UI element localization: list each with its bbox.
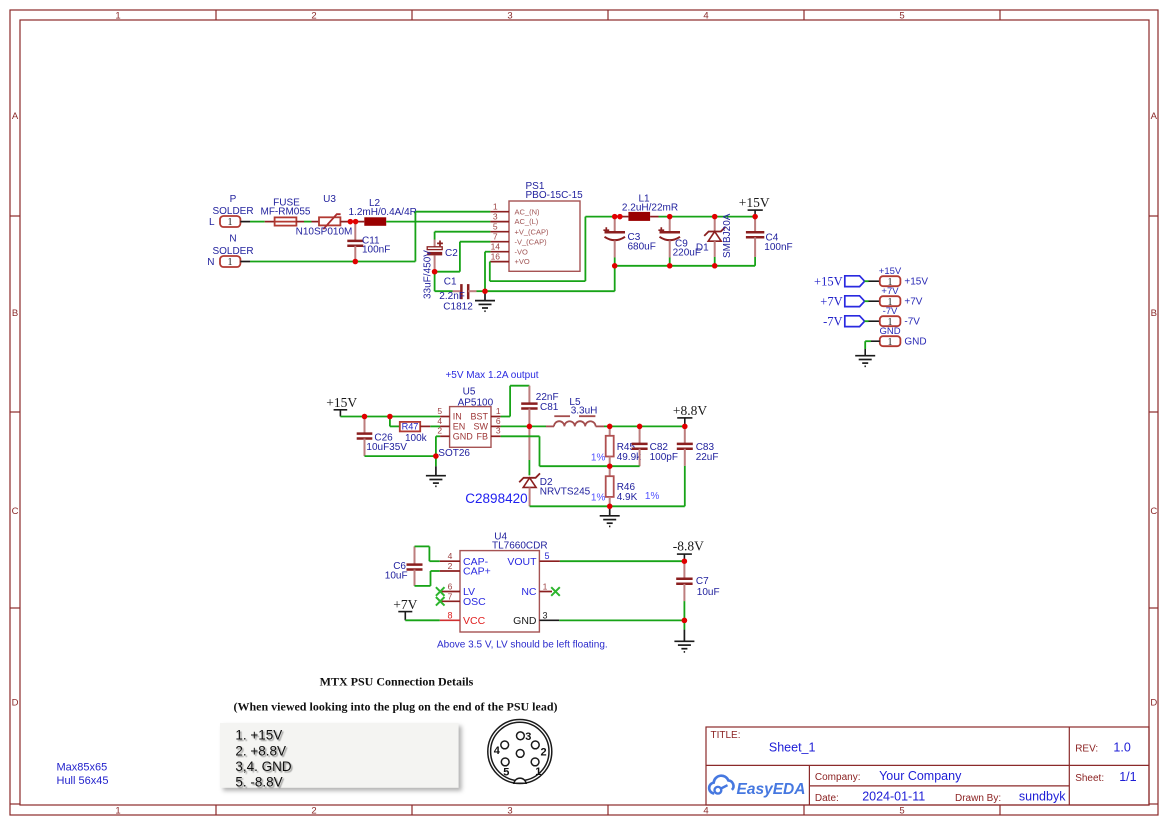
wire: L1 to output rail bbox=[650, 216, 755, 218]
svg-text:C2: C2 bbox=[445, 248, 458, 259]
svg-text:C: C bbox=[12, 506, 19, 517]
svg-text:+15V: +15V bbox=[739, 195, 770, 210]
svg-text:-7V: -7V bbox=[883, 306, 898, 317]
wire: U3 to L2 with junction to C11 bbox=[340, 221, 364, 223]
pin pad GND bbox=[879, 326, 926, 348]
diode D2 NRVTS245 bbox=[519, 426, 590, 506]
junction dots output rail bbox=[607, 424, 687, 429]
wire L: L2 to PS1 pin3 bbox=[386, 221, 490, 223]
svg-text:AC_(L): AC_(L) bbox=[515, 217, 539, 226]
svg-text:TL7660CDR: TL7660CDR bbox=[492, 541, 548, 552]
svg-text:4: 4 bbox=[437, 416, 442, 426]
capacitor C1 2.2nF C1812 bbox=[439, 277, 473, 313]
no-connect X on LV pin6 bbox=[436, 587, 445, 596]
junction dot C2 bottom bbox=[432, 269, 438, 275]
net label +8.8V bbox=[673, 403, 707, 426]
svg-text:U5: U5 bbox=[463, 386, 476, 397]
net label -8.8V bbox=[673, 538, 704, 561]
svg-text:+15V: +15V bbox=[326, 395, 357, 410]
wire: FB feedback line bbox=[501, 436, 640, 466]
wire: L5 to output node bbox=[596, 425, 685, 427]
ground symbol at net flags bbox=[855, 356, 875, 367]
svg-text:2: 2 bbox=[540, 747, 546, 759]
svg-text:+5V Max 1.2A output: +5V Max 1.2A output bbox=[445, 370, 538, 381]
svg-text:5. -8.8V: 5. -8.8V bbox=[235, 775, 282, 790]
no-connect X on NC pin1 bbox=[551, 587, 560, 596]
svg-text:4: 4 bbox=[703, 806, 708, 817]
wire: GND pin3 to C7 bottom bbox=[559, 619, 684, 621]
svg-text:TITLE:: TITLE: bbox=[711, 730, 741, 741]
svg-text:2.2uH/22mR: 2.2uH/22mR bbox=[622, 203, 678, 214]
wire: +15V rail to U5 pin5 bbox=[340, 416, 440, 418]
svg-text:49.9k: 49.9k bbox=[617, 452, 642, 463]
svg-text:+15V: +15V bbox=[879, 266, 902, 277]
svg-text:+8.8V: +8.8V bbox=[673, 403, 707, 418]
svg-text:2. +8.8V: 2. +8.8V bbox=[235, 743, 286, 758]
svg-text:10uF35V: 10uF35V bbox=[366, 442, 407, 453]
wire: PS1 pin16 (+VO) to +15V rail bbox=[490, 217, 615, 282]
svg-text:3: 3 bbox=[542, 610, 547, 620]
junction dots on +15V rail bbox=[362, 414, 393, 419]
junction dots at C3 / L1 left bbox=[612, 214, 622, 219]
svg-text:(When viewed looking into the: (When viewed looking into the plug on th… bbox=[233, 700, 557, 714]
wire: C26 bottom to ground node bbox=[365, 455, 436, 457]
svg-text:VCC: VCC bbox=[463, 615, 486, 627]
svg-text:NRVTS245: NRVTS245 bbox=[540, 486, 591, 497]
wire: SW node bbox=[501, 425, 554, 427]
junction dots C3 bbox=[612, 263, 617, 268]
svg-text:1: 1 bbox=[888, 337, 893, 348]
svg-text:Above 3.5 V, LV should be left: Above 3.5 V, LV should be left floating. bbox=[437, 640, 608, 651]
svg-text:+7V: +7V bbox=[904, 297, 922, 308]
svg-text:3: 3 bbox=[507, 806, 512, 817]
svg-text:A: A bbox=[1151, 111, 1158, 122]
svg-text:SMBJ20A: SMBJ20A bbox=[722, 213, 733, 258]
svg-text:1: 1 bbox=[543, 582, 548, 592]
capacitor C4 100nF bbox=[746, 217, 793, 266]
svg-text:MTX PSU Connection Details: MTX PSU Connection Details bbox=[320, 675, 474, 689]
svg-text:1: 1 bbox=[227, 217, 232, 228]
svg-text:N: N bbox=[207, 257, 214, 268]
wire: PS1 pin7 to C2 bottom bbox=[435, 242, 491, 272]
svg-text:3: 3 bbox=[496, 426, 501, 436]
wire: bottom return rail bbox=[615, 265, 755, 267]
pin pad +7V bbox=[880, 286, 923, 308]
wire: FUSE to U3 bbox=[296, 221, 319, 223]
wire: PS1 pin14 (-VO) down to ground junction bbox=[485, 252, 490, 292]
wire N: pad N to PS1 pin1 bbox=[240, 212, 490, 262]
svg-text:2024-01-11: 2024-01-11 bbox=[862, 789, 925, 803]
svg-text:1%: 1% bbox=[645, 491, 660, 502]
svg-text:1%: 1% bbox=[591, 452, 606, 463]
svg-text:+7V: +7V bbox=[393, 597, 417, 612]
svg-text:2.2nF: 2.2nF bbox=[439, 291, 465, 302]
capacitor C83 22uF bbox=[677, 426, 719, 506]
inductor L5 3.3uH bbox=[554, 397, 597, 426]
svg-text:2: 2 bbox=[311, 11, 316, 22]
svg-text:GND: GND bbox=[904, 337, 926, 348]
svg-text:Sheet:: Sheet: bbox=[1075, 773, 1104, 784]
no-connect X on OSC pin7 bbox=[436, 597, 445, 606]
resistor R47 100k bbox=[390, 417, 440, 445]
junction dot SW/C81 bbox=[527, 424, 532, 429]
svg-text:+V_(CAP): +V_(CAP) bbox=[515, 227, 549, 236]
svg-text:BST: BST bbox=[470, 412, 488, 422]
svg-text:4: 4 bbox=[494, 745, 501, 757]
junction dot FB node bbox=[607, 464, 612, 469]
svg-text:4: 4 bbox=[448, 551, 453, 561]
svg-text:2: 2 bbox=[448, 561, 453, 571]
svg-text:GND: GND bbox=[453, 432, 474, 442]
svg-text:100k: 100k bbox=[405, 433, 428, 444]
svg-text:D: D bbox=[1150, 698, 1157, 709]
junction dots overlay (all nets) bbox=[348, 214, 758, 623]
resistor R46 4.9K bbox=[591, 466, 660, 506]
wire: C6 top to CAP- pin4 bbox=[415, 546, 440, 561]
connector P (solder pad) bbox=[209, 194, 254, 228]
svg-text:N: N bbox=[229, 234, 236, 245]
svg-text:C7: C7 bbox=[696, 576, 709, 587]
ground symbol U5 bbox=[426, 456, 446, 486]
svg-text:CAP+: CAP+ bbox=[463, 566, 491, 578]
svg-text:R47: R47 bbox=[402, 422, 419, 432]
svg-text:SW: SW bbox=[474, 422, 489, 432]
fuse FUSE MF-RM055 bbox=[260, 197, 310, 225]
junction dot GND net bbox=[682, 618, 688, 624]
wire: PS1 pin5 to C2 top bbox=[435, 231, 491, 233]
svg-text:-VO: -VO bbox=[515, 247, 529, 256]
svg-text:10uF: 10uF bbox=[385, 570, 408, 581]
svg-text:100nF: 100nF bbox=[362, 245, 390, 256]
wire: ground line to output cap return bbox=[485, 266, 615, 291]
net port flag +15V bbox=[814, 274, 880, 288]
net label +15V (U5 input) bbox=[326, 395, 357, 417]
wire: dot to L1 bbox=[620, 216, 629, 218]
capacitor C6 10uF bbox=[385, 546, 423, 586]
svg-text:Max85x65: Max85x65 bbox=[57, 761, 108, 773]
svg-text:33uF/450V: 33uF/450V bbox=[423, 250, 434, 299]
svg-text:1: 1 bbox=[115, 11, 120, 22]
svg-text:D1: D1 bbox=[696, 242, 709, 253]
svg-text:680uF: 680uF bbox=[628, 241, 656, 252]
svg-text:+15V: +15V bbox=[814, 274, 843, 288]
svg-text:EN: EN bbox=[453, 422, 466, 432]
capacitor C82 100pF bbox=[632, 426, 678, 466]
svg-text:Sheet_1: Sheet_1 bbox=[769, 740, 816, 754]
svg-text:16: 16 bbox=[491, 251, 501, 261]
svg-text:3: 3 bbox=[525, 731, 531, 743]
wire: bottom rail U5 section bbox=[530, 505, 685, 507]
svg-text:SOLDER: SOLDER bbox=[212, 246, 253, 257]
title block bbox=[706, 727, 1149, 805]
regulator U5 AP5100 bbox=[437, 386, 501, 447]
inductor L1 2.2uH/22mR bbox=[622, 193, 678, 221]
junction dot +15V at rail bbox=[753, 214, 758, 219]
inductor L2 1.2mH/0.4A/4R bbox=[349, 198, 417, 226]
svg-text:100pF: 100pF bbox=[650, 452, 678, 463]
capacitor C3 680uF bbox=[603, 217, 655, 266]
svg-text:OSC: OSC bbox=[463, 596, 486, 608]
svg-text:Your Company: Your Company bbox=[879, 769, 962, 783]
svg-text:1: 1 bbox=[535, 766, 541, 778]
svg-text:4: 4 bbox=[703, 11, 708, 22]
svg-text:3,4. GND: 3,4. GND bbox=[235, 759, 292, 774]
svg-text:-8.8V: -8.8V bbox=[673, 538, 704, 553]
svg-text:N10SP010M: N10SP010M bbox=[296, 227, 353, 238]
DIN connector pin numbers bbox=[494, 731, 547, 778]
svg-text:2: 2 bbox=[311, 806, 316, 817]
svg-text:14: 14 bbox=[491, 242, 501, 252]
capacitor C81 22nF bbox=[521, 386, 559, 427]
svg-text:-7V: -7V bbox=[823, 314, 842, 328]
svg-text:22uF: 22uF bbox=[696, 452, 719, 463]
junction dot +8.8V at rail bbox=[682, 424, 687, 429]
charge pump U4 TL7660CDR bbox=[440, 531, 560, 632]
svg-text:+VO: +VO bbox=[515, 257, 530, 266]
svg-text:4.9K: 4.9K bbox=[617, 492, 638, 503]
svg-text:1.0: 1.0 bbox=[1113, 741, 1130, 755]
svg-text:5: 5 bbox=[899, 806, 904, 817]
title block texts bbox=[711, 730, 1137, 804]
svg-text:sundbyk: sundbyk bbox=[1019, 789, 1066, 803]
svg-text:Date:: Date: bbox=[815, 793, 839, 804]
power module PS1 PBO-15C-15 bbox=[490, 181, 583, 271]
note panel: PSU pinout list bbox=[220, 723, 459, 790]
svg-text:1/1: 1/1 bbox=[1119, 770, 1136, 784]
svg-text:U3: U3 bbox=[323, 194, 336, 205]
svg-text:6: 6 bbox=[448, 582, 453, 592]
svg-text:PBO-15C-15: PBO-15C-15 bbox=[526, 190, 584, 201]
capacitor C2 33uF/450V bbox=[423, 232, 459, 299]
note: board size Max85x65 Hull 56x45 bbox=[57, 761, 109, 787]
svg-text:D: D bbox=[12, 698, 19, 709]
DIN connector drawing (PSU plug) bbox=[488, 720, 552, 784]
svg-text:IN: IN bbox=[453, 412, 462, 422]
connector N (solder pad) bbox=[207, 234, 253, 269]
svg-text:10uF: 10uF bbox=[697, 587, 720, 598]
wire: C1 to ground junction bbox=[468, 290, 485, 292]
wire: BST to C81 bbox=[501, 386, 530, 417]
svg-text:GND: GND bbox=[513, 615, 537, 627]
svg-text:C2898420: C2898420 bbox=[465, 491, 527, 506]
net port flag -7V bbox=[823, 314, 880, 328]
svg-text:Drawn By:: Drawn By: bbox=[955, 793, 1001, 804]
svg-text:NC: NC bbox=[521, 586, 537, 598]
svg-text:-V_(CAP): -V_(CAP) bbox=[515, 237, 548, 246]
svg-text:-7V: -7V bbox=[904, 317, 920, 328]
svg-text:VOUT: VOUT bbox=[507, 556, 537, 568]
svg-text:1: 1 bbox=[115, 806, 120, 817]
svg-text:MF-RM055: MF-RM055 bbox=[260, 207, 310, 218]
svg-text:C: C bbox=[1150, 506, 1157, 517]
wire L: pad P to FUSE bbox=[240, 221, 274, 223]
capacitor C26 10uF35V bbox=[357, 417, 408, 457]
svg-text:C1: C1 bbox=[444, 277, 457, 288]
svg-text:3.3uH: 3.3uH bbox=[571, 405, 598, 416]
svg-text:L: L bbox=[209, 217, 215, 228]
svg-text:100nF: 100nF bbox=[764, 242, 792, 253]
resistor R45 49.9k bbox=[591, 426, 642, 466]
svg-text:1: 1 bbox=[227, 257, 232, 268]
junction dot U5 ground bbox=[433, 453, 439, 459]
ground symbol U5 output bbox=[600, 506, 620, 526]
junction dot VOUT bbox=[682, 559, 687, 564]
svg-text:Company:: Company: bbox=[815, 772, 861, 783]
svg-text:5: 5 bbox=[493, 222, 498, 232]
capacitor C7 10uF bbox=[676, 561, 719, 620]
svg-text:SOLDER: SOLDER bbox=[212, 206, 253, 217]
svg-text:3: 3 bbox=[493, 211, 498, 221]
junction dots at L2 input bbox=[348, 219, 359, 224]
svg-text:5: 5 bbox=[503, 767, 509, 779]
junction dot C11 to N wire bbox=[353, 259, 358, 264]
svg-text:7: 7 bbox=[493, 232, 498, 242]
svg-text:8: 8 bbox=[447, 610, 452, 620]
wire: C6 bottom to CAP+ pin2 bbox=[415, 571, 440, 586]
pin pad -7V bbox=[880, 306, 920, 328]
capacitor C9 220uF bbox=[658, 214, 701, 268]
wire: +7V to VCC pin8 bbox=[405, 619, 439, 621]
svg-text:1.2mH/0.4A/4R: 1.2mH/0.4A/4R bbox=[349, 207, 417, 218]
svg-text:FB: FB bbox=[476, 432, 488, 442]
svg-text:C1812: C1812 bbox=[443, 301, 473, 312]
svg-text:+7V: +7V bbox=[881, 286, 899, 297]
svg-text:REV:: REV: bbox=[1075, 744, 1098, 755]
net label +15V (top) bbox=[739, 195, 770, 217]
svg-text:GND: GND bbox=[879, 326, 900, 337]
svg-text:3: 3 bbox=[507, 11, 512, 22]
svg-text:7: 7 bbox=[448, 591, 453, 601]
svg-text:P: P bbox=[230, 194, 237, 205]
svg-text:Hull 56x45: Hull 56x45 bbox=[57, 775, 109, 787]
svg-text:A: A bbox=[12, 111, 19, 122]
svg-text:6: 6 bbox=[496, 416, 501, 426]
ground symbol primary bbox=[475, 291, 495, 311]
wire: VOUT to C7 bbox=[560, 560, 685, 562]
svg-text:AC_(N): AC_(N) bbox=[515, 207, 541, 216]
svg-text:B: B bbox=[1151, 308, 1157, 319]
junction dot bottom rail bbox=[607, 504, 612, 509]
junction dot primary ground bbox=[482, 289, 487, 294]
svg-text:+15V: +15V bbox=[904, 277, 928, 288]
svg-text:1. +15V: 1. +15V bbox=[235, 728, 282, 743]
pin pad +15V bbox=[879, 266, 929, 288]
svg-text:B: B bbox=[12, 308, 18, 319]
wire: C2 bottom down to C1 bbox=[435, 272, 461, 292]
svg-text:1: 1 bbox=[496, 406, 501, 416]
net port flag +7V bbox=[820, 294, 880, 308]
varistor U3 N10SP010M bbox=[296, 194, 353, 238]
svg-text:C81: C81 bbox=[540, 402, 559, 413]
wire: GND pad to ground bbox=[865, 341, 880, 356]
svg-text:+7V: +7V bbox=[820, 294, 842, 308]
svg-text:5: 5 bbox=[899, 11, 904, 22]
diode D1 SMBJ20A (TVS) bbox=[696, 213, 733, 268]
ground symbol U4 bbox=[674, 620, 694, 652]
EasyEDA logo bbox=[709, 776, 805, 799]
svg-text:AP5100: AP5100 bbox=[458, 398, 494, 409]
svg-text:5: 5 bbox=[437, 406, 442, 416]
svg-text:2: 2 bbox=[437, 426, 442, 436]
svg-text:1%: 1% bbox=[591, 493, 606, 504]
svg-text:1: 1 bbox=[493, 202, 498, 212]
svg-text:EasyEDA: EasyEDA bbox=[737, 781, 806, 798]
svg-text:5: 5 bbox=[544, 551, 549, 561]
svg-text:SOT26: SOT26 bbox=[438, 448, 470, 459]
net label +7V bbox=[393, 597, 417, 621]
wire: U5 GND pin2 to ground bbox=[436, 436, 440, 456]
capacitor C11 100nF bbox=[347, 222, 390, 262]
